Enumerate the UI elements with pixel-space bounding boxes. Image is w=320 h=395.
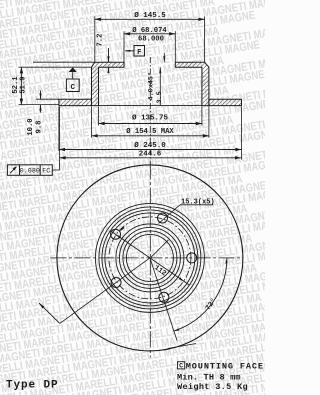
- dimension dia135.75 line: [99, 123, 202, 125]
- bolt hole 2: [187, 253, 197, 263]
- FCF leader to disc edge: [52, 107, 59, 171]
- dimension 3.5 line: [163, 53, 165, 62]
- hub ring circle 2: [119, 227, 180, 288]
- center bore circle: [126, 234, 173, 281]
- hat ring circle 4: [105, 213, 195, 303]
- dimension 4.0x45 text rotated: [147, 72, 156, 101]
- dimension dia68.074 upper text: [132, 26, 167, 35]
- dimension 10.0 text rotated: [27, 118, 35, 135]
- dia154.5 right extension: [208, 107, 210, 138]
- svg-text:Ø 135.75: Ø 135.75: [132, 113, 169, 122]
- dimension 7.2 upper arrow line: [107, 48, 109, 62]
- hub ring circle 1: [123, 231, 177, 285]
- radial line to lower-right bolt hole: [150, 258, 177, 341]
- bolt hole 3: [159, 292, 169, 302]
- dimension 7.2 text rotated: [96, 34, 104, 47]
- top face extension line: [33, 61, 95, 63]
- dimension 244.6 text: [139, 151, 162, 159]
- datum C box: [66, 79, 79, 92]
- dia68 right extension line: [174, 31, 176, 62]
- svg-text:0.080: 0.080: [20, 168, 40, 176]
- brake disc section: left braking band (hatched): [59, 99, 92, 105]
- svg-text:Ø 245.0: Ø 245.0: [134, 141, 166, 150]
- dimension dia135.75 text: [132, 113, 169, 122]
- dia135.75 right extension: [201, 107, 203, 126]
- front view outer circle: [57, 165, 243, 351]
- svg-text:FC: FC: [42, 168, 50, 176]
- dimension 52.1 line with arrows: [20, 67, 22, 105]
- svg-text:Weight 3.5 Kg: Weight 3.5 Kg: [177, 382, 248, 392]
- svg-text:C: C: [179, 363, 183, 370]
- label MOUNTING FACE: [186, 361, 264, 371]
- datum C leader: [72, 72, 74, 79]
- dimension dia145.5 line with arrows: [95, 18, 205, 20]
- dimension 244.6 line: [60, 157, 242, 159]
- flange bottom extension line: [19, 66, 92, 68]
- radial mark through center: [150, 240, 168, 258]
- label 15.3(x5) text: [181, 198, 215, 206]
- dimension dia68.074 line with arrows: [124, 33, 175, 35]
- dia145.5 right extension line: [204, 17, 206, 63]
- svg-text:10.0: 10.0: [27, 118, 35, 135]
- dimension dia112 diagonal line: [110, 226, 189, 285]
- bolt hole 5: [111, 229, 121, 239]
- datum C triangle on mounting face: [69, 67, 77, 72]
- centerline of disc axis: [149, 57, 151, 164]
- front view horizontal centerline: [51, 257, 244, 259]
- dimension dia245.0 text: [134, 141, 166, 150]
- dia145.5 left extension line: [94, 17, 96, 63]
- dimension 10.0 upper arrow: [39, 91, 41, 100]
- dimension 68.000 lower text: [138, 35, 164, 43]
- dimension dia154.5 text: [126, 127, 174, 136]
- dia154.5 left extension: [91, 107, 93, 138]
- svg-text:C: C: [71, 84, 76, 92]
- feature control frame runout 0.080 FC: [7, 165, 52, 176]
- label Type DP: [6, 380, 59, 392]
- svg-text:Ø 154.5 MAX: Ø 154.5 MAX: [126, 127, 174, 136]
- hat ring circle 6: [99, 207, 201, 309]
- dimension 51.9 text rotated: [20, 76, 28, 93]
- datum C box small in note: [178, 362, 185, 370]
- dimension 112 text rotated: [152, 264, 167, 278]
- brake disc section: right hat wall + flange (hatched): [175, 62, 209, 105]
- hat cup floor hidden rim line: [99, 105, 202, 107]
- 72 degree dimension arc: [174, 258, 228, 331]
- leader to mounting face note: [168, 344, 197, 349]
- dia68 left extension line: [123, 31, 125, 62]
- dia135.75 left extension: [98, 107, 100, 126]
- svg-text:4.0x45°: 4.0x45°: [147, 72, 156, 101]
- brake disc section: left hat wall + flange (hatched): [92, 62, 125, 105]
- hub ring circle 3: [116, 224, 184, 292]
- label Weight 3.5 Kg: [177, 382, 248, 392]
- radial line through lower-left bolt hole: [60, 258, 150, 324]
- label Min. TH 8 mm: [177, 373, 241, 383]
- dimension 9.8 text rotated: [35, 121, 43, 134]
- svg-text:9.8: 9.8: [35, 121, 43, 134]
- datum F leader arrow: [124, 50, 134, 52]
- dimension 3.5 text rotated: [156, 91, 164, 103]
- svg-text:3.5: 3.5: [156, 91, 164, 103]
- bent leader arrow lower-left: [39, 303, 60, 324]
- svg-text:MOUNTING FACE: MOUNTING FACE: [186, 361, 264, 371]
- dimension 4.0x45 line: [159, 67, 161, 105]
- brake disc section: right braking band (hatched): [209, 99, 242, 105]
- label 15.3(x5) leader: [159, 205, 181, 224]
- bolt hole 4: [111, 278, 121, 288]
- band bottom extension line: [19, 104, 59, 106]
- dimension dia154.5 line: [92, 135, 209, 137]
- dia245 right extension: [241, 107, 243, 160]
- dimension dia145.5 text: [134, 11, 166, 20]
- svg-text:51.9: 51.9: [20, 76, 28, 93]
- svg-text:F: F: [137, 49, 141, 57]
- hat ring circle 5: [102, 210, 198, 306]
- dimension dia245.0 line: [59, 149, 242, 151]
- band top extension line: [36, 98, 59, 100]
- svg-text:7.2: 7.2: [96, 34, 104, 47]
- dimension 52.1 text rotated: [12, 76, 20, 94]
- 72 degree text rotated: [204, 297, 219, 312]
- bolt circle dia112 dashed: [109, 217, 191, 299]
- datum F box: [134, 46, 145, 57]
- dia245 left extension: [58, 107, 60, 152]
- dimension 7.2 lower arrow line: [107, 67, 109, 73]
- dimension 10.0 lower arrow: [39, 105, 41, 113]
- svg-text:Type DP: Type DP: [6, 380, 59, 392]
- label 15.3(x5) underline: [180, 204, 213, 206]
- bolt hole 1: [158, 213, 168, 223]
- hat ring circle 7: [95, 203, 204, 312]
- front view vertical centerline: [149, 164, 151, 358]
- svg-text:68.000: 68.000: [138, 35, 164, 43]
